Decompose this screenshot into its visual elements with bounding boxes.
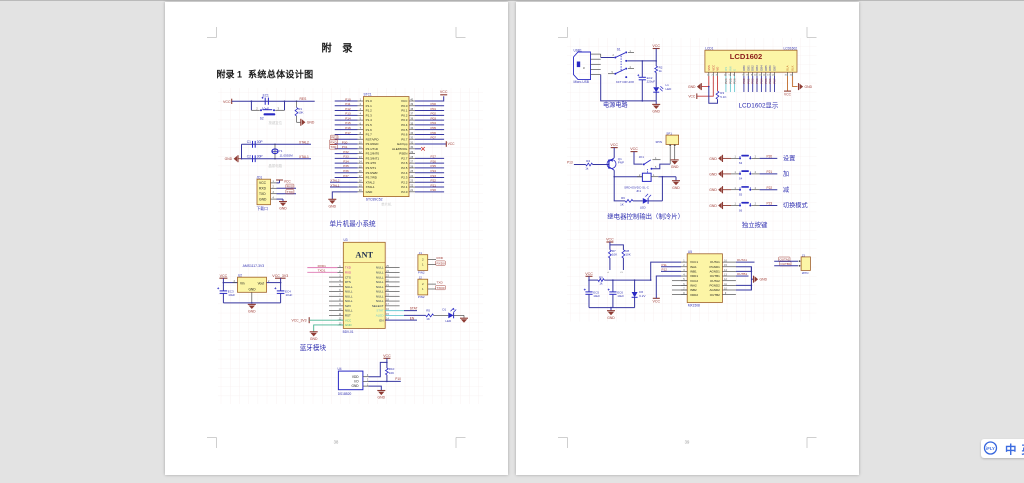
schematic grid sheet1 [218, 88, 483, 404]
page margin mark bottom-right p38 [456, 438, 466, 449]
wire STAT [385, 310, 417, 312]
regulator U2 body [238, 277, 267, 292]
wire R4 to base [593, 164, 609, 166]
wire JD1 RXD [277, 187, 297, 189]
label S1 [617, 48, 621, 52]
J1 pins [428, 260, 436, 265]
U5 right pin names [709, 260, 720, 297]
label S4 [739, 177, 743, 181]
wire EA to VCC [415, 143, 446, 145]
junction collector [613, 176, 615, 178]
caption 晶振电路 [269, 163, 283, 168]
wire R1 to ground [297, 116, 301, 122]
wire S5 to P22 [752, 189, 778, 191]
power flag VCC_3V3 [272, 274, 288, 278]
wires RS RW E [726, 76, 735, 92]
label R5 [426, 309, 430, 313]
caption 下载口 [257, 206, 269, 211]
ground (U5) [754, 276, 768, 283]
net label P13 [567, 160, 573, 164]
wire VCC to RES rail [232, 100, 315, 102]
page margin mark top-left p39 [558, 27, 568, 38]
junction EC6 [612, 279, 614, 281]
U4 pin names [352, 375, 360, 388]
resistor R2 [655, 66, 658, 73]
junction Y1 top [274, 144, 276, 146]
wire R6 to D2 [633, 200, 643, 202]
page margin mark top-right p38 [456, 27, 466, 38]
net label P23 [767, 202, 773, 206]
wire VCC to R10 [386, 358, 388, 368]
wire main rail [604, 279, 651, 281]
caption 电源电路 [603, 101, 629, 109]
label J2 [419, 275, 423, 279]
junction U5 gnd [751, 271, 753, 287]
net label TXD [437, 280, 444, 284]
U5 lower left stubs [672, 281, 687, 295]
wire crystal ground link [238, 158, 242, 160]
net labels P10-P17 [345, 97, 351, 134]
wire EC5 to rail2 [588, 294, 590, 307]
value 10uF EC1 [262, 107, 269, 111]
label J3 [802, 253, 806, 257]
caption J2 PIN2 [418, 295, 425, 299]
junction right of S2 [284, 100, 286, 102]
label S3 [739, 161, 743, 165]
wire pullup rail [610, 242, 624, 250]
wire J3 B [774, 265, 798, 267]
wire OUTA1 [736, 261, 755, 263]
label S5 [739, 193, 743, 197]
value 10K R1 [298, 110, 303, 114]
net label XTAL2 [299, 140, 309, 144]
junction coil out [662, 176, 664, 178]
label U4 [338, 367, 342, 371]
wire EC3 drop [222, 283, 224, 291]
label MX1508 [688, 304, 700, 308]
connector J3 2PIN [799, 257, 811, 271]
U3 title ANT [355, 251, 373, 260]
wire USB gnd rail [601, 75, 657, 101]
wire XTAL2 rail [242, 143, 312, 145]
wire R10 to IO [386, 375, 388, 382]
ground (LCD BLK) [799, 83, 813, 90]
wire PGND1/AGND1 join [736, 267, 752, 272]
wire D6 to rail2 [634, 297, 636, 307]
net label OUTA1 [737, 258, 747, 262]
wire VCC to emitter [613, 148, 615, 158]
label STC1 [364, 92, 372, 96]
switch S4 [739, 170, 751, 175]
net label RES [300, 97, 308, 101]
wire VCC drop (motor) [588, 276, 590, 280]
net label P10 [395, 377, 401, 381]
wire EC6 to rail2 [612, 294, 614, 307]
caption 单片机最小系统 [330, 219, 377, 228]
net label XTAL1 (U1) [330, 183, 340, 187]
label LCD1602 (designator) [784, 47, 798, 51]
junction gnd (motor) [610, 307, 612, 309]
capacitor EC1 [262, 97, 269, 105]
junction EC2 bottom [642, 100, 644, 102]
ground (key S5) [709, 186, 722, 193]
label JK1 (coil) [636, 189, 642, 193]
switch S3 [739, 155, 751, 160]
wire VCC (LCD) [697, 76, 714, 96]
power flag VCC (JD1) [276, 180, 291, 184]
power flag VCC (motor) [585, 272, 593, 276]
value 6.2V D6 [639, 294, 645, 298]
capacitor C2 [253, 155, 256, 162]
page margin mark bottom-right p39 [807, 438, 817, 449]
wire XTAL1 rail [242, 158, 312, 160]
ground (U2) [248, 304, 256, 313]
net label RXD0 [436, 261, 446, 265]
wire TXD1 (magenta) [307, 267, 337, 269]
title 附录 [322, 42, 354, 55]
S1 link (dashed) [620, 56, 622, 72]
JD1 pins 1-4 [271, 180, 277, 199]
page number 39 [685, 440, 690, 445]
widget partial glyph at edge [1021, 443, 1024, 457]
U3 right NULL stubs [385, 268, 399, 306]
resistor R7 [609, 250, 612, 258]
connector JD1 [257, 179, 271, 205]
junction EC3 tap [223, 282, 225, 284]
wire VSS [702, 76, 709, 87]
ground (LCD VSS) [688, 83, 701, 90]
wire R8 stub [620, 258, 623, 273]
label STC89C52 [366, 198, 383, 202]
crystal Y1 [272, 144, 278, 158]
switch S5 [739, 186, 751, 191]
switch S1 pole A [614, 51, 627, 62]
net labels P27-P20 [431, 155, 437, 192]
connector USB1 Micro-USB [574, 52, 591, 80]
junction U2 gnd [251, 302, 253, 304]
wire PGND2/AGND2 join [736, 285, 752, 290]
pin 1 S5 [735, 187, 737, 190]
power flag VCC (relay sw) [630, 147, 638, 151]
header J1 [418, 255, 428, 271]
net label P12 [662, 268, 668, 272]
value 11.0592M [280, 154, 294, 158]
wire VCC drop to R2 [655, 49, 657, 67]
value 10uF EC6 [617, 294, 624, 298]
net label P21 [767, 170, 773, 174]
wire USB VBUS to S1 [601, 54, 615, 57]
wire VCC to sw common [634, 152, 643, 165]
U2 pin names [240, 281, 264, 291]
wire gnd to S4 [723, 173, 740, 175]
value 220uF [647, 80, 656, 84]
junction VSS/R3 [708, 86, 710, 88]
wire EC3 to rail [222, 293, 224, 303]
caption 减 [783, 186, 789, 194]
U5 left pin names [690, 260, 698, 297]
net label TXD (JD1) [286, 190, 294, 194]
wires P00-P07 [415, 106, 444, 139]
value 30P C2 [257, 154, 263, 158]
label EC5 [593, 290, 599, 294]
ground (JD1) [279, 202, 287, 211]
capacitor EC4 [274, 287, 284, 293]
net labels P24-P26 [724, 78, 737, 84]
U5 right pins [722, 260, 736, 296]
wire S1 out [627, 60, 656, 62]
page number 38 [334, 440, 339, 445]
page 2 (sheet 39) [516, 2, 859, 475]
wire gnd drop (motor) [610, 308, 612, 311]
module U3 ANT body [343, 242, 385, 328]
power flag VCC (pullups) [606, 238, 614, 242]
pin 2 S3 [755, 156, 757, 159]
value 1K R6 [620, 203, 624, 207]
label R8 [625, 249, 629, 253]
caption 设置 [783, 155, 795, 163]
net label TXD P31 [329, 145, 347, 149]
junction R1 tap [296, 100, 298, 102]
junction EC5 [588, 279, 590, 281]
wire EC4 to rail [280, 293, 282, 303]
label EC2 [647, 76, 653, 80]
driver U5 MX1508 body [687, 254, 722, 303]
value 10K R10 [389, 371, 394, 375]
resistor R9 [598, 279, 604, 282]
label C1 [247, 140, 251, 144]
U3 left pin names [345, 266, 353, 327]
wire S2 right drop [275, 101, 284, 110]
J2 pins [428, 284, 436, 289]
label J1 [419, 251, 423, 255]
page 1 (sheet 38) [165, 2, 508, 475]
label JK1 [639, 155, 645, 159]
label AMS1117-3V3 [243, 264, 265, 268]
label LCD1 [705, 47, 713, 51]
value 10K R8 [625, 253, 630, 257]
LED D1 [448, 308, 456, 319]
wire EC2 drop [641, 61, 643, 77]
wire JD1 TXD [277, 193, 297, 195]
junction IO [386, 381, 388, 383]
caption 切换模式 [783, 202, 808, 210]
wire J3 A [774, 260, 798, 262]
svg-text:英: 英 [1021, 443, 1024, 457]
wire P13 to R4 [574, 164, 586, 166]
wire VO to R3 [717, 76, 719, 91]
value 10uF EC4 [286, 293, 293, 297]
transistor Q1 PNP [607, 158, 616, 170]
wire Vout [267, 278, 281, 282]
resistor R1 [295, 107, 298, 116]
wire BLA [787, 76, 789, 91]
wire JD1 VCC [277, 180, 280, 183]
page margin mark top-left p38 [207, 27, 217, 38]
label R7 [612, 249, 616, 253]
wire rail to VCC1 [651, 262, 681, 280]
power flag VCC (BLA) [784, 91, 792, 97]
label S2 [260, 117, 264, 121]
ground (U4) [377, 391, 385, 400]
label U5 [688, 250, 692, 254]
capacitor EC6 [608, 289, 617, 295]
power flag VCC (EA) [446, 141, 455, 147]
wire D1 to gnd [454, 315, 464, 318]
floating translate widget bottom-right [981, 439, 1024, 458]
IC U1 STC89C52 body [363, 97, 409, 197]
caption 单片机 [381, 202, 392, 207]
label C2 [247, 154, 251, 158]
label DS18B20 [338, 392, 352, 396]
label R4 [586, 159, 590, 163]
schematic grid sheet2 [567, 38, 817, 322]
wire main rail to R9 [589, 279, 598, 281]
wire JD1 GND [277, 199, 284, 201]
label PNP [618, 161, 624, 165]
label BDV-01 [343, 330, 354, 334]
net labels P00-P07 [431, 102, 437, 139]
U3 unconnected left stubs [329, 277, 338, 315]
net label RES (U1) [330, 135, 338, 139]
pin 2 of S2 [256, 107, 258, 111]
top divider line [0, 0, 1024, 1]
wire U3 VCC [309, 319, 343, 321]
junction rail corner [650, 279, 652, 281]
power flag VCC (Q1) [610, 143, 618, 147]
label D1 [442, 308, 446, 312]
U1 right pins 21-40 [409, 98, 415, 192]
ground (key S3) [709, 155, 722, 162]
wire R5 to D1 [434, 314, 449, 316]
pin 2 U2 [268, 280, 270, 283]
net label OUTB1 (J3) [780, 262, 791, 266]
resistor R10 [386, 368, 389, 375]
ground (D1) [460, 318, 468, 323]
U5 left pins [681, 260, 687, 296]
label R3 [720, 91, 724, 95]
resistor R4 [586, 163, 593, 166]
net label RXD [437, 256, 444, 260]
header J2 [418, 279, 428, 295]
wire R3 to VSS rail [709, 87, 718, 104]
power flag VCC (U2 in) [219, 274, 227, 278]
wire R1 top stub [296, 101, 298, 107]
value 10uF EC5 [593, 294, 600, 298]
net label XTAL1 [299, 155, 309, 159]
net label P11 [662, 263, 668, 267]
label 2PIN [802, 271, 809, 275]
net label P20 [767, 155, 773, 159]
ground (crystal) [225, 155, 238, 162]
label R9 [599, 275, 603, 279]
net label RXD P30 [329, 140, 347, 144]
wire S4 to P21 [752, 173, 778, 175]
wire ALED to R5 [385, 314, 426, 316]
caption 蓝牙模块 [300, 343, 327, 352]
net labels P00-P07 (LCD) [742, 78, 777, 84]
ground (key S6) [709, 202, 722, 209]
widget chinese glyph [1005, 443, 1017, 457]
wire U4 GND [369, 386, 382, 390]
wire R7 stub [607, 258, 610, 273]
resistor R6 [625, 200, 633, 203]
label LED L1 [666, 87, 673, 91]
junction crystal gnd [241, 158, 243, 160]
label L1 [666, 83, 670, 87]
label R10 [389, 367, 395, 371]
svg-text:中: 中 [1005, 443, 1017, 457]
wire ALE stub with no-connect [415, 147, 425, 151]
wire RXD1 (magenta) [307, 271, 337, 273]
ground (reset) [301, 119, 315, 126]
LED D2 [643, 194, 651, 204]
junction EC4 tap [280, 282, 282, 284]
caption J1 PIN2 [418, 270, 425, 274]
value 10K R7 [612, 253, 617, 257]
label R1 [298, 107, 302, 111]
junction Y1 bottom [274, 158, 276, 160]
wire EC2 to rail [641, 80, 643, 101]
wire IO to P10 [369, 380, 401, 382]
pin 3 of S2 [278, 107, 280, 111]
pin 2 S4 [755, 171, 757, 174]
wire OUTB1 [736, 275, 749, 277]
caption 按键复位 [269, 120, 283, 125]
power flag VCC (U4) [383, 354, 391, 358]
ground (key S4) [709, 170, 722, 177]
caption 独立按键 [742, 220, 768, 229]
label EC1 [263, 93, 269, 97]
page margin mark bottom-left p39 [558, 438, 568, 449]
net label RXD1 [318, 264, 327, 268]
label LED D1 [445, 319, 452, 323]
sensor U4 body [338, 371, 363, 390]
capacitor EC2 [637, 74, 646, 80]
caption 继电器控制输出（制冷片） [607, 211, 684, 220]
label SRD-05VDC-SL-C [624, 186, 650, 190]
ground (U3) [310, 332, 318, 341]
pin 1 S3 [735, 156, 737, 159]
junction EC2 top [642, 60, 644, 62]
wire U1 GND [332, 192, 357, 199]
wire crystal left riser [241, 144, 243, 158]
power flag VCC (U1 top) [440, 90, 448, 95]
label JD1 [257, 176, 263, 180]
wire gnd to S3 [723, 157, 740, 159]
label USB1 [574, 48, 583, 52]
label SP1 [666, 132, 672, 136]
label EC4 [285, 289, 291, 293]
wires D0-D7 [744, 76, 775, 92]
label EC6 [617, 290, 623, 294]
resistor R3 [716, 91, 719, 99]
LCD pin names [707, 65, 795, 71]
U4 pins [363, 374, 369, 386]
wire INB1 [661, 270, 681, 272]
wire EN [385, 319, 417, 321]
U3 right pin numbers [386, 265, 389, 321]
net label TXD1 [318, 269, 326, 273]
capacitor C1 [253, 141, 256, 148]
value 5.1K [720, 95, 726, 99]
label Y1 [279, 149, 283, 153]
LCD pins 1-16 [707, 72, 793, 76]
label R6 [621, 196, 625, 200]
label Q1 [618, 157, 622, 161]
LED L1 [653, 86, 663, 92]
ground (motor) [607, 311, 615, 320]
display LCD1 body [705, 50, 797, 72]
